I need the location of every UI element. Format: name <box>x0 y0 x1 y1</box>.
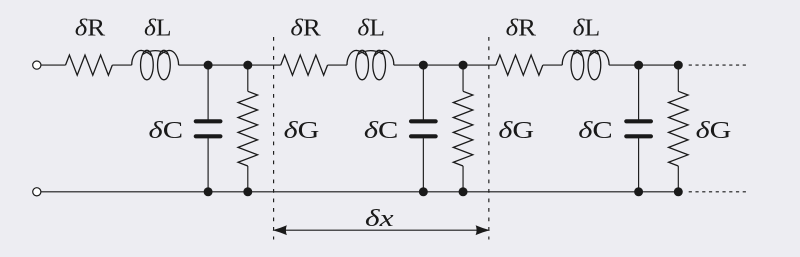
wire: top rail down to capacitor <box>638 65 640 119</box>
inductor loop 1 <box>571 50 584 80</box>
wire: top rail down to shunt resistor <box>462 65 464 91</box>
resistor deltaG (shunt conductance) <box>669 91 689 166</box>
inductor deltaL coil arcs <box>347 50 394 65</box>
wire: R to L <box>543 64 562 66</box>
capacitor deltaC plate 1 <box>196 119 221 123</box>
svg-text:δR: δR <box>75 16 105 42</box>
svg-text:δR: δR <box>506 16 536 42</box>
second ladder section <box>281 16 534 197</box>
svg-text:δG: δG <box>696 118 732 144</box>
inductor deltaL coil arcs <box>562 50 609 65</box>
wire: top rail, terminal to R <box>41 64 66 66</box>
wire: shunt resistor down to bottom rail <box>462 166 464 192</box>
svg-text:δC: δC <box>578 118 613 144</box>
wire: top rail down to shunt resistor <box>677 65 679 91</box>
wire: top rail dotted continuation <box>689 64 746 66</box>
node: top junction at capacitor <box>204 61 213 70</box>
wire: capacitor down to bottom rail <box>638 138 640 192</box>
node: bottom junction at capacitor <box>634 187 643 196</box>
wire: top rail down to capacitor <box>207 65 209 119</box>
wire: top rail down to shunt resistor <box>247 65 249 91</box>
wire: top rail down to capacitor <box>422 65 424 119</box>
wire: bottom rail dotted continuation <box>689 191 746 193</box>
inductor loop 2 <box>373 50 386 80</box>
resistor deltaR (series) <box>281 55 328 75</box>
dimension arrow deltax shaft <box>285 229 479 231</box>
node: bottom junction at shunt resistor <box>243 187 252 196</box>
wire: L to right <box>609 64 682 66</box>
resistor deltaG (shunt conductance) <box>453 91 473 166</box>
capacitor deltaC plate 2 <box>626 134 651 138</box>
wire: R to L <box>112 64 131 66</box>
wire: capacitor down to bottom rail <box>422 138 424 192</box>
capacitor deltaC plate 2 <box>196 134 221 138</box>
svg-text:δx: δx <box>365 206 394 232</box>
wire: R to L <box>328 64 347 66</box>
inductor loop 2 <box>158 50 171 80</box>
terminal: bottom-left open circle <box>33 188 41 196</box>
inductor loop 2 <box>588 50 601 80</box>
third ladder section <box>496 16 731 197</box>
resistor deltaR (series) <box>496 55 543 75</box>
svg-text:δG: δG <box>284 118 320 144</box>
wire: capacitor down to bottom rail <box>207 138 209 192</box>
resistor deltaR (series) <box>66 55 113 75</box>
svg-text:δR: δR <box>290 16 320 42</box>
node: top junction at shunt resistor <box>243 61 252 70</box>
node: top junction at shunt resistor <box>459 61 468 70</box>
wire: bottom rail <box>41 191 682 193</box>
terminal: top-left open circle <box>33 61 41 69</box>
node: bottom junction at shunt resistor <box>674 187 683 196</box>
node: top junction at shunt resistor <box>674 61 683 70</box>
wire: L to right <box>179 64 281 66</box>
capacitor deltaC plate 1 <box>411 119 436 123</box>
svg-text:δC: δC <box>364 118 399 144</box>
wire: shunt resistor down to bottom rail <box>247 166 249 192</box>
svg-text:δL: δL <box>573 16 601 42</box>
resistor deltaG (shunt conductance) <box>238 91 257 166</box>
node: top junction at capacitor <box>634 61 643 70</box>
svg-text:δC: δC <box>149 118 184 144</box>
svg-text:δL: δL <box>357 16 385 42</box>
arrowhead right <box>476 225 491 235</box>
wire: shunt resistor down to bottom rail <box>677 166 679 192</box>
inductor deltaL coil arcs <box>132 50 179 65</box>
inductor loop 1 <box>356 50 369 80</box>
dashed section boundary right <box>488 37 490 240</box>
node: bottom junction at shunt resistor <box>459 187 468 196</box>
first ladder section <box>41 16 320 197</box>
capacitor deltaC plate 2 <box>411 134 436 138</box>
arrowhead left <box>272 225 287 235</box>
dashed section boundary left <box>273 37 275 240</box>
svg-text:δG: δG <box>498 118 534 144</box>
svg-text:δL: δL <box>144 16 172 42</box>
inductor loop 1 <box>141 50 154 80</box>
node: bottom junction at capacitor <box>204 187 213 196</box>
wire: L to right <box>394 64 496 66</box>
capacitor deltaC plate 1 <box>626 119 651 123</box>
node: bottom junction at capacitor <box>419 187 428 196</box>
node: top junction at capacitor <box>419 61 428 70</box>
